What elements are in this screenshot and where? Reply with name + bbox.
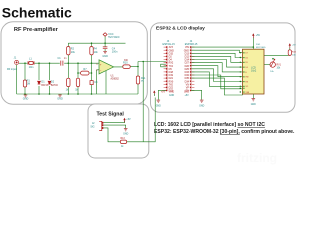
svg-text:10m: 10m — [29, 66, 34, 69]
svg-text:D5: D5 — [246, 62, 248, 64]
svg-text:GND: GND — [123, 134, 128, 136]
svg-text:GND: GND — [169, 95, 174, 97]
svg-text:RW: RW — [246, 77, 249, 79]
svg-text:RV1: RV1 — [277, 65, 282, 67]
svg-text:GND: GND — [156, 105, 161, 107]
svg-text:D6: D6 — [246, 57, 248, 59]
svg-text:GND: GND — [199, 105, 204, 107]
svg-text:+5V: +5V — [185, 95, 190, 97]
svg-text:fritzing: fritzing — [237, 151, 277, 165]
svg-text:Test Signal: Test Signal — [97, 111, 125, 117]
svg-text:GND: GND — [251, 104, 256, 106]
svg-text:RF input: RF input — [7, 68, 17, 71]
svg-text:ESP32 & LCD display: ESP32 & LCD display — [156, 26, 205, 32]
svg-text:BAT46: BAT46 — [41, 84, 49, 87]
svg-text:1M: 1M — [27, 82, 30, 85]
svg-text:GND: GND — [23, 98, 29, 101]
svg-text:GND: GND — [102, 55, 108, 58]
svg-text:+5V: +5V — [126, 118, 131, 121]
svg-text:D4: D4 — [246, 67, 248, 69]
svg-text:+5V: +5V — [256, 34, 261, 37]
svg-text:D7: D7 — [246, 53, 248, 55]
svg-text:ESP32: ESP32-WROOM-32 [30-pin]: ESP32: ESP32-WROOM-32 [30-pin], confirm … — [154, 129, 295, 135]
svg-text:ESP32R-15: ESP32R-15 — [185, 43, 198, 46]
svg-text:LCD: 1602 LCD [parallel interf: LCD: 1602 LCD [parallel interface] so NO… — [154, 122, 265, 128]
svg-text:Schematic: Schematic — [2, 5, 72, 21]
svg-text:GND: GND — [57, 98, 63, 101]
svg-text:100n: 100n — [112, 50, 118, 53]
svg-text:RF Pre-amplifier: RF Pre-amplifier — [14, 27, 59, 33]
svg-text:ESP32L-15: ESP32L-15 — [162, 43, 175, 46]
svg-text:R10: R10 — [123, 61, 128, 64]
svg-text:GND: GND — [169, 91, 174, 93]
svg-text:R13: R13 — [121, 138, 126, 140]
svg-text:BAT46: BAT46 — [51, 84, 59, 87]
svg-text:+5V: +5V — [292, 45, 296, 47]
svg-text:5V0 5AV0: 5V0 5AV0 — [108, 36, 120, 39]
svg-text:AD8052: AD8052 — [111, 77, 120, 80]
svg-text:+5V: +5V — [161, 91, 166, 93]
svg-text:MC21605: MC21605 — [256, 47, 266, 49]
svg-text:SIG: SIG — [90, 125, 94, 128]
svg-text:GND: GND — [184, 91, 189, 93]
svg-text:16x2: 16x2 — [251, 70, 257, 73]
